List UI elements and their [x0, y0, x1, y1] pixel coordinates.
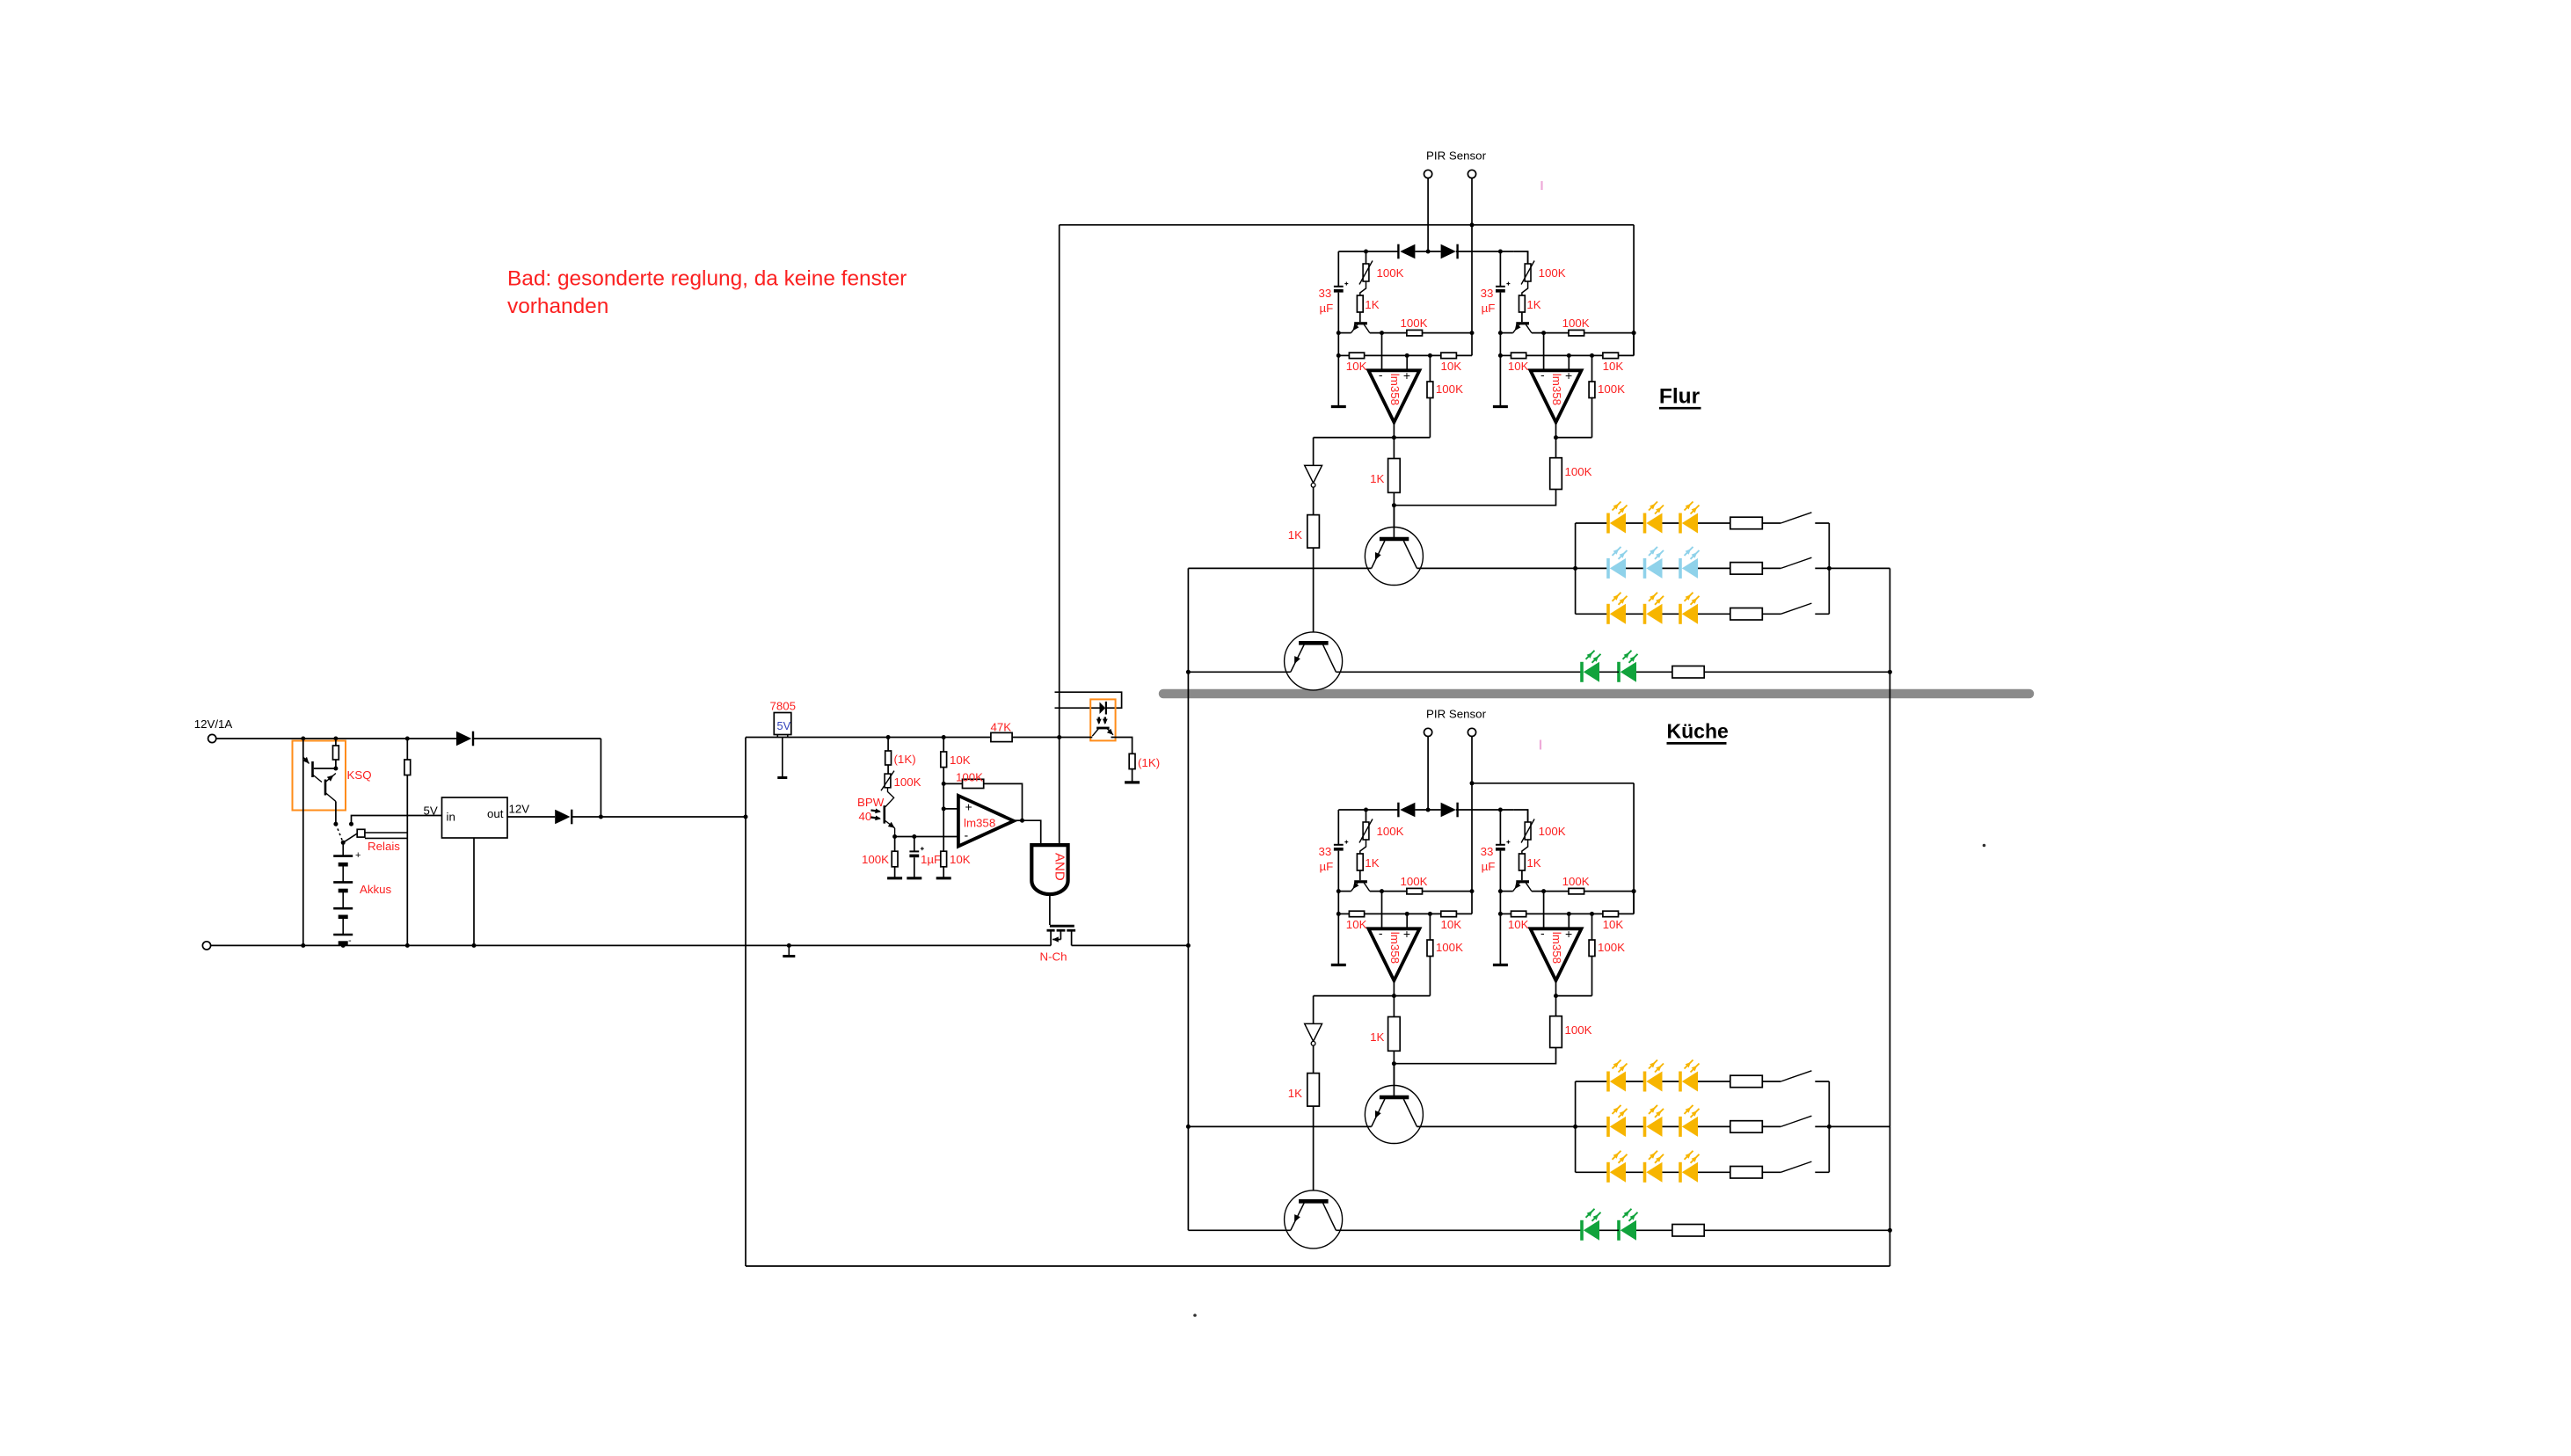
LED yellow	[1606, 1162, 1610, 1183]
wire	[1415, 809, 1440, 811]
wire noninverting input	[1406, 914, 1408, 928]
svg-text:+: +	[1403, 927, 1410, 941]
svg-text:10K: 10K	[950, 853, 971, 866]
wire LED bracket left	[1575, 523, 1577, 614]
LED yellow	[1679, 1162, 1682, 1183]
resistor 1K	[1388, 459, 1401, 493]
node	[942, 806, 946, 811]
wire to Kueche	[1187, 945, 1189, 1230]
resistor 10K	[1441, 353, 1457, 359]
LED yellow	[1606, 513, 1610, 534]
svg-text:µF: µF	[1320, 302, 1334, 315]
wire	[1576, 522, 1608, 524]
resistor 100K feedback	[963, 779, 984, 788]
wire	[1472, 809, 1514, 811]
wire noninverting input	[1568, 914, 1570, 928]
potentiometer 100K	[1363, 822, 1369, 840]
svg-text:Relais: Relais	[368, 840, 400, 853]
svg-text:µF: µF	[1482, 860, 1496, 873]
wire	[887, 765, 889, 774]
wire	[1338, 891, 1351, 892]
svg-text:1K: 1K	[1365, 856, 1379, 870]
wire	[1636, 671, 1672, 673]
node noninverting input	[1567, 353, 1571, 358]
wire	[1555, 996, 1557, 1016]
wire	[1337, 355, 1339, 405]
wire LED bracket left	[1575, 1081, 1577, 1172]
wire	[1555, 438, 1557, 458]
node	[301, 737, 305, 741]
wire inverting input	[1381, 892, 1383, 929]
svg-text:100K: 100K	[1539, 266, 1566, 280]
resistor 10K	[1441, 911, 1457, 917]
wire	[335, 802, 337, 825]
wire inverting input	[1543, 333, 1545, 371]
wire	[1626, 567, 1645, 569]
wire output	[1014, 819, 1023, 821]
wire	[1500, 891, 1512, 892]
svg-text:100K: 100K	[1562, 317, 1590, 330]
wire	[1704, 671, 1890, 673]
wire LED bracket right	[1828, 523, 1830, 614]
wire	[1429, 914, 1431, 940]
resistor KSQ	[333, 746, 339, 760]
phototransistor BPW40	[883, 805, 885, 823]
LED yellow	[1679, 513, 1682, 534]
wire opto anode	[1055, 707, 1100, 709]
wire	[887, 738, 889, 752]
svg-text:7805: 7805	[770, 700, 797, 713]
svg-text:100K: 100K	[862, 853, 889, 866]
resistor 100K feedback	[1427, 940, 1433, 957]
wire	[406, 775, 408, 946]
ground	[907, 877, 921, 879]
node output	[1554, 994, 1558, 998]
wire	[1429, 957, 1431, 996]
wire	[1591, 957, 1593, 996]
node	[1827, 566, 1832, 571]
wire	[1576, 567, 1608, 569]
wire	[1663, 1081, 1682, 1082]
svg-text:10K: 10K	[1603, 918, 1624, 931]
wire	[1366, 810, 1367, 822]
wire opto feed top	[1055, 692, 1122, 708]
node	[1470, 781, 1475, 785]
wire	[1456, 251, 1472, 252]
LED yellow	[1679, 1117, 1682, 1137]
wire	[1556, 995, 1592, 997]
node	[1573, 566, 1577, 571]
wire 10K divider	[943, 738, 944, 753]
wire	[1576, 1171, 1608, 1173]
wire drain rail	[1072, 944, 1189, 946]
wire	[1393, 1064, 1395, 1096]
wire inverting row	[895, 836, 958, 838]
wire	[1365, 354, 1441, 356]
potentiometer 100K	[1525, 822, 1531, 840]
wire	[1337, 851, 1339, 914]
resistor 10K	[1349, 911, 1364, 917]
AND gate	[1031, 845, 1067, 894]
wire	[1636, 1229, 1672, 1231]
resistor	[1730, 517, 1763, 529]
svg-text:lm358: lm358	[1550, 374, 1563, 405]
svg-text:100K: 100K	[1377, 266, 1404, 280]
node 47K junction	[1057, 735, 1061, 739]
wire Flur supply drop	[1187, 568, 1189, 945]
transistor Q driver	[1365, 528, 1423, 586]
terminal 12V input	[208, 734, 216, 742]
wire	[1499, 810, 1501, 844]
capacitor 33uF	[1334, 286, 1344, 288]
wire	[1499, 251, 1501, 286]
wire relay coil drop	[406, 739, 408, 760]
op-amp lm358	[1531, 370, 1582, 422]
node output	[1392, 435, 1396, 440]
LED green	[1580, 1220, 1584, 1241]
wire	[1337, 810, 1339, 844]
wire	[1023, 820, 1041, 845]
diode D right	[1441, 803, 1456, 818]
svg-text:10K: 10K	[1508, 360, 1529, 373]
resistor 1K	[1519, 854, 1526, 870]
wire	[1393, 996, 1395, 1017]
wire	[1423, 891, 1473, 892]
node collector	[1380, 889, 1384, 893]
transistor Q (PIR amp)	[1354, 322, 1367, 324]
wire	[1576, 613, 1608, 615]
LED green	[1580, 662, 1584, 682]
svg-text:100K: 100K	[1377, 825, 1404, 838]
wire	[1698, 567, 1730, 569]
resistor 100K	[1569, 330, 1584, 336]
node	[1573, 1125, 1577, 1129]
resistor	[1672, 666, 1704, 679]
svg-text:1K: 1K	[1526, 298, 1540, 311]
wire right vertical	[1633, 783, 1635, 914]
wire	[1370, 332, 1407, 334]
svg-text:PIR Sensor: PIR Sensor	[1426, 708, 1487, 721]
wire input bus	[216, 738, 456, 739]
wire left feed	[1059, 225, 1060, 845]
diode D input	[456, 732, 471, 746]
wire	[1527, 810, 1529, 822]
optocoupler phototransistor	[1096, 727, 1109, 730]
transistor Q low side	[1285, 632, 1343, 690]
wire	[1336, 1229, 1582, 1231]
wire	[1584, 891, 1635, 892]
diode D right	[1441, 244, 1456, 259]
wire	[1111, 738, 1133, 754]
svg-text:10K: 10K	[1346, 918, 1367, 931]
wire	[1584, 332, 1635, 334]
resistor 1K	[1357, 295, 1363, 312]
wire	[1365, 913, 1441, 914]
wire	[1471, 333, 1473, 356]
wire	[1576, 1081, 1608, 1082]
wire top bus	[1060, 224, 1634, 226]
optocoupler LED	[1100, 703, 1106, 715]
wire	[1599, 1229, 1619, 1231]
wire	[1698, 1125, 1730, 1127]
wire right return	[1889, 568, 1890, 672]
wire output	[1555, 980, 1557, 995]
wire	[1060, 737, 1093, 739]
node	[333, 737, 338, 741]
wire	[1313, 1106, 1315, 1200]
svg-text:BPW: BPW	[857, 796, 885, 809]
node feedback top	[1428, 353, 1432, 358]
wire	[943, 867, 944, 877]
terminal PIR left	[1424, 170, 1432, 178]
svg-text:1µF: 1µF	[921, 853, 941, 866]
node emitter rail	[1498, 331, 1503, 335]
mark pink tick Kueche	[1540, 740, 1541, 750]
node emitter rail	[1336, 889, 1341, 893]
node	[472, 943, 477, 948]
svg-text:100K: 100K	[1436, 382, 1463, 396]
mark pink tick Flur	[1540, 181, 1542, 190]
capacitor 33uF	[1334, 844, 1344, 846]
node diode junction	[1426, 808, 1431, 812]
transistor Q (PIR amp)	[1516, 880, 1529, 883]
wire	[1394, 1048, 1555, 1064]
wire	[1532, 891, 1569, 892]
wire	[1762, 1171, 1781, 1173]
LED blue	[1679, 558, 1682, 579]
svg-text:12V: 12V	[509, 802, 530, 815]
node switch common	[341, 841, 346, 845]
wire 7805 gnd	[782, 738, 783, 777]
box KSQ current source	[293, 741, 346, 811]
transistor Q driver	[1365, 1086, 1423, 1144]
node base junction	[1392, 1061, 1396, 1066]
wire	[1499, 851, 1501, 914]
wire	[1370, 891, 1407, 892]
node	[1470, 889, 1475, 893]
resistor 10K	[1603, 353, 1619, 359]
wire	[1499, 293, 1501, 356]
switch	[1781, 557, 1811, 568]
svg-text:1K: 1K	[1365, 298, 1379, 311]
wire	[1314, 995, 1395, 997]
wire	[894, 867, 896, 877]
wire 5V rail	[746, 737, 991, 739]
relay actuator (dotted)	[336, 824, 343, 842]
node pot tap ch1	[1364, 808, 1368, 812]
optocoupler light arrows	[1098, 717, 1100, 724]
wire	[1556, 437, 1592, 439]
resistor 100K	[1407, 330, 1423, 336]
battery Akkus	[342, 842, 344, 855]
svg-text:10K: 10K	[1508, 918, 1529, 931]
wire	[352, 816, 442, 825]
transistor N-Ch MOSFET	[1050, 925, 1074, 928]
wire	[1423, 332, 1473, 334]
svg-text:µF: µF	[1482, 302, 1496, 315]
wire	[1429, 398, 1431, 438]
svg-text:AND: AND	[1052, 853, 1067, 881]
wire	[1576, 1125, 1608, 1127]
svg-text:100K: 100K	[1565, 465, 1592, 478]
wire	[1599, 671, 1619, 673]
wire	[1417, 1125, 1576, 1127]
wire	[1456, 913, 1472, 914]
wire	[335, 760, 337, 768]
wire	[1012, 737, 1060, 739]
node	[1632, 889, 1636, 893]
node	[942, 735, 946, 739]
wire	[984, 783, 1023, 820]
resistor 10K	[941, 752, 947, 768]
node	[301, 943, 305, 948]
wire LED bracket right	[1828, 1081, 1830, 1172]
capacitor 1uF	[909, 850, 919, 852]
resistor relay	[404, 760, 411, 775]
svg-text:(1K): (1K)	[1138, 756, 1160, 769]
wire	[1359, 312, 1361, 322]
ground	[887, 877, 902, 879]
wire	[1360, 840, 1366, 854]
wire	[1393, 1051, 1395, 1063]
svg-text:-: -	[965, 828, 969, 842]
svg-text:100K: 100K	[956, 771, 983, 784]
node	[1020, 819, 1024, 823]
wire bottom return rail	[746, 1265, 1890, 1267]
optocoupler box	[1090, 699, 1115, 740]
node	[1827, 1125, 1832, 1129]
svg-text:-: -	[1540, 926, 1545, 940]
node	[892, 834, 897, 839]
svg-text:100K: 100K	[1562, 875, 1590, 888]
potentiometer 100K	[1525, 264, 1531, 281]
resistor 100K	[1550, 1016, 1562, 1048]
potentiometer 100K	[885, 774, 891, 788]
wire	[1500, 354, 1511, 356]
LED blue	[1643, 558, 1647, 579]
svg-text:+: +	[355, 850, 361, 861]
svg-text:-: -	[1540, 368, 1545, 382]
ground	[936, 877, 951, 879]
wire	[1394, 437, 1430, 439]
resistor 100K	[1569, 888, 1584, 894]
node diode junction	[1426, 250, 1431, 254]
wire	[1698, 1171, 1730, 1173]
wire	[1499, 355, 1501, 405]
LED yellow	[1679, 604, 1682, 624]
svg-text:+: +	[1565, 927, 1572, 941]
divider Flur/Kueche	[1163, 689, 2029, 699]
wire	[1626, 522, 1645, 524]
wire	[1338, 332, 1351, 334]
node feedback top	[1590, 912, 1594, 916]
svg-text:1K: 1K	[1288, 528, 1302, 542]
wire	[1132, 769, 1133, 782]
svg-text:Bad: gesonderte reglung, da ke: Bad: gesonderte reglung, da keine fenste…	[507, 267, 907, 291]
terminal PIR right	[1468, 170, 1475, 178]
wire	[1762, 1125, 1781, 1127]
wire LED mid row	[1188, 567, 1371, 569]
wire AND output	[1049, 894, 1051, 925]
node switch throw in	[349, 822, 353, 826]
wire	[1417, 567, 1576, 569]
ground	[1493, 964, 1508, 966]
wire	[1663, 522, 1682, 524]
wire	[1591, 398, 1593, 438]
wire PIR left	[1427, 737, 1429, 811]
svg-text:100K: 100K	[894, 775, 921, 789]
capacitor 33uF	[1496, 844, 1505, 846]
wire	[1338, 354, 1349, 356]
wire ch2 pot feed	[1514, 810, 1528, 822]
wire	[1698, 613, 1730, 615]
op-amp lm358 (light sensor)	[958, 796, 1014, 847]
svg-text:N-Ch: N-Ch	[1040, 950, 1067, 964]
relay coil wires	[365, 832, 407, 834]
wire	[1619, 354, 1635, 356]
wire	[1366, 251, 1367, 264]
wire	[1591, 355, 1593, 382]
wire	[1762, 522, 1781, 524]
wire	[1526, 913, 1603, 914]
node	[1470, 222, 1475, 227]
resistor (1K)	[1129, 753, 1135, 768]
wire	[1521, 312, 1523, 322]
terminal PIR right	[1468, 728, 1475, 736]
node	[1632, 331, 1636, 335]
wire	[314, 768, 336, 769]
wire	[1313, 996, 1315, 1024]
op-amp lm358	[1531, 928, 1582, 980]
wire green row	[1188, 1229, 1290, 1231]
wire	[1314, 437, 1395, 439]
wire	[572, 816, 601, 818]
wire	[1663, 567, 1682, 569]
wire top bus	[1472, 783, 1634, 784]
svg-text:lm358: lm358	[964, 817, 995, 830]
wire	[1313, 1045, 1315, 1073]
wire noninverting input	[1406, 355, 1408, 370]
node feedback top	[1428, 912, 1432, 916]
wire	[1829, 567, 1890, 569]
LED yellow	[1606, 1072, 1610, 1092]
wire LED mid row	[1188, 1125, 1371, 1127]
wire output	[1555, 422, 1557, 437]
wire diode row	[1338, 809, 1398, 811]
ground	[1331, 405, 1346, 408]
node	[787, 943, 791, 948]
node noninverting input	[1405, 912, 1409, 916]
node	[405, 737, 410, 741]
wire noninverting row	[943, 808, 958, 810]
svg-text:100K: 100K	[1401, 317, 1428, 330]
op-amp lm358	[1368, 928, 1419, 980]
node emitter rail	[1498, 889, 1503, 893]
node	[1470, 331, 1475, 335]
wire green row	[1188, 671, 1290, 673]
wire	[1762, 1081, 1781, 1082]
wire	[1359, 870, 1361, 880]
resistor	[1730, 563, 1763, 575]
resistor 100K feedback	[1589, 382, 1595, 398]
node	[1632, 331, 1636, 335]
node channel2 rail	[1498, 250, 1503, 254]
svg-text:10K: 10K	[1441, 918, 1462, 931]
capacitor 33uF	[1496, 286, 1505, 288]
svg-text:lm358: lm358	[1388, 374, 1402, 405]
node collector	[1380, 331, 1384, 335]
node	[599, 815, 603, 819]
